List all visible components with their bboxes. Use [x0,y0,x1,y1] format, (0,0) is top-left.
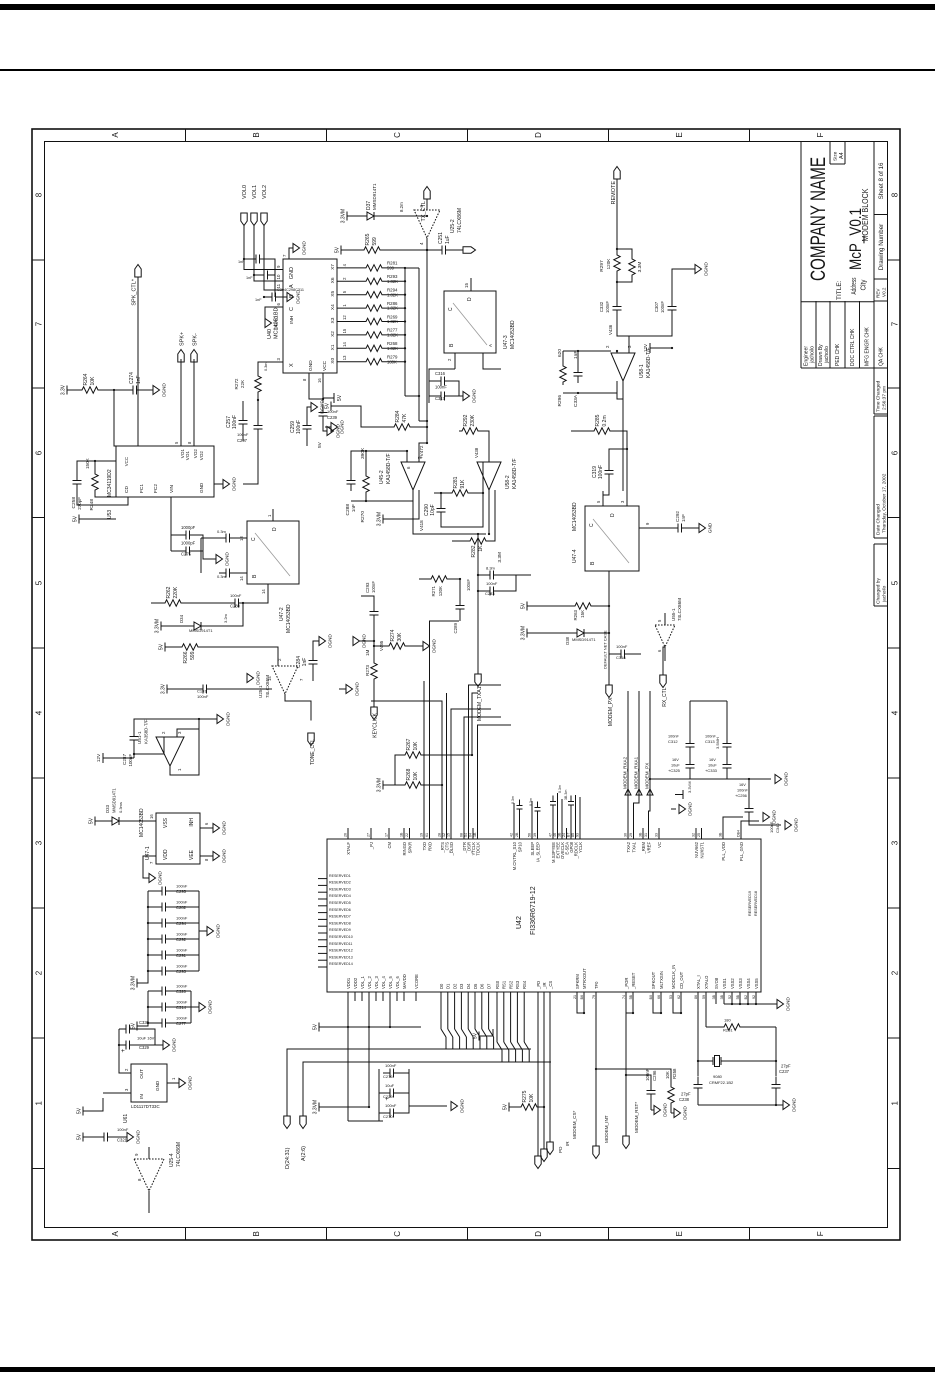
svg-text:DGND: DGND [221,821,226,835]
svg-text:VSS1: VSS1 [721,978,726,989]
svg-text:D(24:31): D(24:31) [285,1147,291,1169]
wire 5V to R284 [337,406,391,427]
svg-text:R282: R282 [471,545,477,557]
power 12V at U58-1 [650,343,672,353]
ground DGND at U40 pin7 [293,244,300,253]
svg-text:R273: R273 [365,665,370,676]
svg-text:VSS5: VSS5 [753,978,758,989]
svg-text:SP10: SP10 [517,841,522,852]
wire XTAL_I net [697,1004,699,1077]
svg-text:GND: GND [155,1080,160,1091]
svg-text:DGND: DGND [255,671,260,685]
terminal VOL0 [240,213,246,226]
svg-text:1nF: 1nF [238,260,245,264]
svg-text:jachoilo: jachoilo [809,346,815,364]
capacitor C290 10pF [436,501,445,519]
svg-text:X0: X0 [330,358,336,364]
svg-text:X4: X4 [330,304,336,310]
svg-text:VEE: VEE [189,849,195,860]
svg-text:RXD: RXD [427,842,432,851]
svg-text:+: + [121,1049,127,1053]
power 12V at U51 [103,753,134,763]
svg-text:61: 61 [425,833,429,837]
svg-text:3.3M: 3.3M [497,552,503,563]
svg-text:U40: U40 [267,329,273,339]
svg-text:R292: R292 [463,414,469,426]
svg-text:8.3m: 8.3m [486,566,496,571]
wire cluster runs [552,805,554,828]
terminal MODEM_RST* flag [622,1136,628,1149]
svg-text:MODEM_RST*: MODEM_RST* [634,1102,639,1133]
svg-text:12: 12 [442,833,446,837]
svg-text:SPKR: SPKR [407,842,412,853]
svg-text:D4: D4 [466,983,471,989]
ground DGND left of 5V [331,423,338,432]
svg-text:RESERVED2: RESERVED2 [329,881,351,885]
resistor R281b 91K [449,490,471,496]
svg-text:D: D [610,513,616,517]
svg-text:RESERVED13: RESERVED13 [329,955,353,959]
svg-text:9: 9 [134,1153,139,1156]
op-amp U45-2 KA1458D-T/F [401,462,425,490]
svg-text:KA1458D-T/F: KA1458D-T/F [386,453,392,484]
svg-text:E: E [675,1231,684,1236]
svg-text:MC14053BD: MC14053BD [572,502,578,531]
svg-text:VDL_6: VDL_6 [394,976,399,989]
svg-text:R266: R266 [183,651,189,663]
U61 GND stub [167,1082,179,1084]
svg-text:REMOTE: REMOTE [611,181,617,205]
power 5V tap at data bus [479,1032,485,1041]
svg-text:C317: C317 [435,396,446,401]
svg-text:C274: C274 [129,372,135,384]
svg-text:C280: C280 [230,604,241,609]
svg-text:Sheet 8 of 16: Sheet 8 of 16 [878,162,885,199]
power 5V at U40 VCC [323,393,334,403]
svg-text:24: 24 [562,833,566,837]
wire MODEM_INT [595,992,597,1146]
svg-text:C258: C258 [71,497,77,509]
svg-text:2: 2 [447,358,452,361]
svg-text:27pF: 27pF [681,1092,691,1097]
svg-text:C293: C293 [365,582,370,593]
svg-text:MMSD914T1: MMSD914T1 [572,637,596,642]
wire MODEM_TXA1 run [477,534,479,674]
svg-text:8: 8 [137,1178,142,1181]
svg-text:U47-3: U47-3 [503,335,509,349]
capacitor C239 100nF [318,405,327,423]
svg-text:RS4: RS4 [522,980,527,989]
svg-text:D: D [272,527,278,531]
svg-text:MC34119D2: MC34119D2 [107,469,113,497]
svg-text:3: 3 [124,1088,129,1091]
svg-text:U55-1: U55-1 [671,608,676,621]
power 5V R266 chain [165,643,171,652]
resistor R272 [254,373,260,395]
svg-text:VDL_2: VDL_2 [366,976,371,989]
svg-text:5V: 5V [317,441,323,448]
power 5V at U61 [83,1107,89,1116]
svg-text:VDL_1: VDL_1 [359,976,364,989]
svg-text:100nF: 100nF [371,581,376,593]
svg-text:_IR: _IR [541,982,546,990]
svg-text:3.3V: 3.3V [160,683,166,694]
wires C275/C279 [171,550,179,552]
svg-text:10K: 10K [413,771,419,781]
rail wires cap network [689,775,691,779]
capacitor C332 100nF [612,299,621,317]
ground DGND below U53 [223,480,230,489]
wire C280 to U47-2 pin 14 [246,584,268,603]
capacitor small at SP10 [518,809,520,828]
svg-text:66: 66 [656,995,660,999]
svg-text:1B: 1B [473,832,477,837]
svg-text:5V: 5V [158,643,164,650]
svg-text:V418: V418 [419,520,424,531]
U42 reserved pins top [318,966,327,968]
svg-text:NUV662: NUV662 [693,841,698,857]
resistor R275 10K pullup [509,1103,515,1112]
svg-text:DB4: DB4 [736,830,740,837]
resistor R258 10K [667,1084,673,1106]
svg-text:F: F [816,132,825,137]
capacitor C295 100nF [148,890,155,892]
svg-text:KA1458D-T/F: KA1458D-T/F [512,458,518,489]
wire PLL_VDD [723,817,743,828]
svg-text:SPK-: SPK- [192,333,198,346]
bottom thick rule [0,1367,935,1372]
svg-text:14: 14 [342,341,347,346]
wire PLL_GND [741,821,759,828]
svg-text:+C325: +C325 [668,768,681,773]
capacitor C274 1nF [126,386,144,395]
svg-text:100nF: 100nF [176,1015,188,1020]
svg-text:RESERVED19: RESERVED19 [748,891,752,916]
power 5V rail left of U42 [319,1023,325,1032]
power 5V at U53 [79,515,85,524]
svg-text:2: 2 [161,731,166,734]
svg-text:D0: D0 [438,983,443,989]
svg-text:5V: 5V [520,602,526,609]
svg-text:7: 7 [282,254,287,257]
svg-text:C276: C276 [383,1074,393,1079]
capacitor C333 10uF 16V [722,757,731,775]
wire VOL2 to U40 pin A [264,226,274,291]
svg-text:7: 7 [34,321,43,326]
capacitor C33A 1nF [573,365,582,383]
svg-text:DGND: DGND [301,241,306,255]
svg-text:D7: D7 [486,983,491,989]
capacitor C312 100nF [685,736,694,754]
buffer U25-4 74LCX86M [134,1159,164,1191]
svg-text:MODEM_RXA2: MODEM_RXA2 [622,756,627,789]
svg-text:_CS: _CS [547,981,552,990]
capacitor small 10.3pm b [219,534,237,543]
svg-text:3.2m: 3.2m [223,613,228,623]
terminal VOL2 [260,213,266,226]
svg-text:GND: GND [199,482,204,493]
ground DGND at VSS rail [777,1000,784,1009]
svg-text:DGND: DGND [171,1038,176,1052]
terminal MODEM_TXA1 [474,674,480,687]
svg-text:7: 7 [299,678,304,681]
svg-text:DGND: DGND [783,772,788,786]
svg-text:VC: VC [656,842,661,848]
svg-text:_PJ: _PJ [368,842,373,850]
svg-text:Drawing Number: Drawing Number [878,224,885,270]
svg-text:R258: R258 [672,1068,677,1079]
svg-text:25: 25 [697,833,701,837]
diode D37 MMSD914T1 [347,212,353,221]
wire DSR run [468,685,501,828]
terminal MODEM_LPX [605,685,611,698]
svg-text:IA_SLEEP: IA_SLEEP [535,842,540,862]
buffer U55-1 74LCX86M [655,625,675,647]
svg-text:Changed by: Changed by [875,578,881,604]
svg-text:3: 3 [620,500,625,503]
ground DGND at C259 [311,403,318,412]
svg-text:VIN: VIN [169,484,175,493]
svg-text:U45-2: U45-2 [379,470,385,484]
terminal IR flag [540,1149,546,1162]
capacitor small at IA_SLEEP [536,811,538,828]
wire VOL0 to U40 pin C [244,226,274,270]
svg-text:jachoilo: jachoilo [881,585,887,603]
svg-text:RESERVED1: RESERVED1 [329,874,351,878]
ground DGND at U47-1 pin8 [213,852,220,861]
resistor R292 230K [459,428,481,434]
IC U47-1 MC14053BD power pins [156,813,200,864]
svg-text:C332: C332 [599,301,604,312]
svg-text:8: 8 [204,858,209,861]
svg-text:Size: Size [832,151,838,161]
svg-text:TXA2: TXA2 [625,841,630,852]
svg-text:DGND: DGND [215,924,220,938]
svg-text:R267: R267 [406,738,412,750]
svg-text:C275: C275 [181,552,192,557]
svg-text:C289: C289 [453,622,458,633]
svg-text:74LCX86M: 74LCX86M [176,1142,182,1167]
svg-text:C: C [589,523,595,527]
ground DGND at C296 [654,1106,661,1115]
wire U40 X pin to filter [258,362,274,373]
ground DGND right of U51 [217,715,224,724]
svg-text:D5: D5 [472,983,477,989]
wire DLSD run [451,709,491,828]
svg-text:10: 10 [276,274,281,279]
svg-text:3.3VM: 3.3VM [154,619,160,633]
svg-text:12: 12 [342,315,347,320]
svg-text:1nF: 1nF [302,658,308,667]
svg-text:C33A: C33A [573,394,579,407]
svg-text:5: 5 [657,619,662,622]
svg-text:DGND: DGND [224,552,229,566]
svg-text:100nF: 100nF [232,415,238,429]
svg-text:VSS2: VSS2 [729,978,734,989]
ground DGND below cap rails [727,778,771,780]
svg-text:6: 6 [406,466,411,469]
svg-text:D37: D37 [366,201,372,210]
svg-text:U47-2: U47-2 [279,607,285,621]
svg-text:DGND: DGND [273,316,278,330]
svg-text:29: 29 [629,833,633,837]
svg-text:VCORE: VCORE [413,974,418,989]
svg-text:X: X [289,363,295,367]
ground DGND below R274 [423,642,430,651]
svg-text:C: C [251,537,257,541]
terminal TX_CTL [423,187,429,200]
svg-text:V438: V438 [474,447,479,458]
svg-text:C259: C259 [290,421,296,433]
wire R297 to REMOTE [616,179,618,252]
terminal SPK_CTL* [134,265,140,278]
capacitor C288 1nF [346,473,355,491]
svg-text:220K: 220K [173,586,179,598]
svg-text:15: 15 [464,283,469,288]
svg-text:X1: X1 [330,344,336,350]
wire PD to flag [537,992,539,1156]
resistor R297 120K [613,252,619,274]
resistor R269 [363,318,385,324]
svg-text:RESERVED6: RESERVED6 [329,908,351,912]
svg-text:74: 74 [621,995,625,999]
terminal MODEM_CS* flag [546,1142,552,1155]
svg-text:0.3m: 0.3m [558,785,562,793]
svg-text:DEFAULT NET CASE: DEFAULT NET CASE [602,630,607,669]
wire SLEEP run [531,801,533,828]
svg-text:74LCX86M: 74LCX86M [265,675,270,698]
svg-text:VDD: VDD [163,849,169,860]
svg-text:R297: R297 [599,260,605,272]
svg-text:100nF: 100nF [327,409,339,414]
terminal TONE_CTL [307,733,313,746]
svg-text:C257: C257 [226,416,232,428]
power 5V at cap bank2 [137,1022,143,1031]
svg-text:86: 86 [693,995,697,999]
ground DGND below C321 [127,1133,134,1142]
svg-text:10uF: 10uF [708,764,717,768]
svg-text:B6: B6 [579,995,583,999]
U47-3 pin 15 stub [470,278,472,291]
svg-text:U53: U53 [107,510,113,519]
svg-text:27pF: 27pF [781,1064,791,1069]
U53 feedback wires [77,491,128,505]
svg-text:MODEM_CS*: MODEM_CS* [572,1110,577,1139]
IC U47-3 MC14053BD [444,291,496,353]
svg-text:100nF: 100nF [128,754,133,767]
border frame inner [44,142,887,1228]
svg-text:C191: C191 [197,689,207,694]
svg-text:C238: C238 [679,1097,690,1102]
svg-text:VSS4: VSS4 [745,978,750,989]
U42 paired pin loops [577,1004,584,1013]
capacitor C276 100nF [348,1069,379,1121]
svg-text:39: 39 [533,833,537,837]
svg-text:U25-1: U25-1 [258,685,263,698]
input port MODEM_RXA2 [625,789,631,795]
grid ticks [32,1168,900,1170]
svg-text:C297: C297 [237,438,248,443]
svg-text:+C333: +C333 [705,768,718,773]
svg-text:PED CHK: PED CHK [835,343,841,366]
capacitor C297 [253,418,262,436]
svg-text:DGND: DGND [785,997,790,1011]
svg-text:B: B [252,132,261,137]
U40 pin 7 GND stub [289,248,293,259]
svg-text:C340: C340 [775,823,780,833]
svg-text:B: B [252,1231,261,1236]
wire TX_CTL to U25-2 in [426,199,428,210]
capacitor C318 100nF [609,653,614,655]
svg-text:1nF: 1nF [136,375,142,384]
ground DGND below U61 [179,1079,186,1088]
svg-text:C237: C237 [779,1069,790,1074]
svg-text:V436: V436 [608,324,613,335]
wire TDCLK run [477,725,511,828]
svg-text:5: 5 [34,580,43,585]
svg-text:CD: CD [124,486,130,493]
svg-text:GND: GND [308,360,314,371]
svg-text:100nF: 100nF [296,420,302,434]
resistor R281 [363,265,385,271]
svg-text:10uF: 10uF [671,764,680,768]
wire U58-1 + input [616,351,618,353]
svg-text:620: 620 [557,349,563,357]
svg-text:V0.2: V0.2 [881,287,886,297]
wire MODEM_LPX run [608,571,610,685]
capacitor C304 1nF [249,255,267,264]
capacitor C293 100nF [369,604,378,622]
svg-text:7: 7 [890,321,899,326]
capacitor C284 1nF [308,653,317,671]
svg-text:28: 28 [437,833,441,837]
svg-text:R274: R274 [390,629,396,641]
svg-text:2: 2 [34,970,43,975]
svg-text:R268: R268 [406,768,412,780]
svg-text:SVO8: SVO8 [713,977,718,989]
svg-text:91K: 91K [460,479,466,489]
terminal A(2:6) [299,1116,305,1129]
svg-text:FC2: FC2 [153,484,159,493]
svg-text:RS0: RS0 [494,980,499,989]
power 5V chain R265 [341,246,347,255]
svg-text:XTALO: XTALO [703,975,708,989]
svg-text:100nF: 100nF [668,735,679,739]
capacitor C258 270pF [72,473,81,491]
op-amp U58-2 KA1458D-T/F [477,462,501,490]
svg-text:DGND: DGND [459,1099,464,1113]
svg-text:MFG ENGR CHK: MFG ENGR CHK [864,326,870,366]
wire IR to flag [543,992,545,1149]
resistor R268 10K [402,782,424,788]
capacitor small 10.3pm a [219,569,237,578]
svg-text:100nF: 100nF [176,983,188,988]
IC U47-4 MC14053BD [585,506,639,571]
ground GND below C292 [699,524,706,533]
svg-text:C290: C290 [424,504,430,516]
svg-text:C307: C307 [654,301,659,312]
svg-text:C292: C292 [675,511,680,522]
svg-text:5V: 5V [502,1103,508,1110]
svg-text:1B: 1B [399,832,403,837]
ground DGND below C274 [153,386,160,395]
svg-text:C330: C330 [139,1020,150,1025]
svg-text:DGND: DGND [327,634,332,648]
svg-text:MAVDD: MAVDD [401,974,406,989]
svg-text:10uF: 10uF [385,1083,395,1088]
KEYCLICK chain resistors [383,781,389,790]
svg-text:5V: 5V [334,246,340,253]
